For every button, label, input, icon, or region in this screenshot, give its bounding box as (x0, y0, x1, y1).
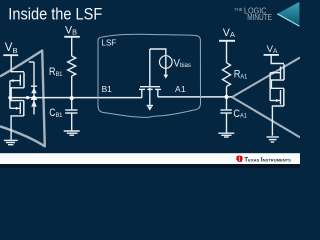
svg-text:THE: THE (234, 7, 242, 12)
svg-text:MINUTE: MINUTE (247, 13, 272, 22)
svg-text:A1: A1 (175, 84, 186, 94)
svg-text:Inside the LSF: Inside the LSF (8, 4, 102, 23)
svg-text:Texas Instruments: Texas Instruments (244, 158, 291, 164)
svg-text:B1: B1 (102, 84, 113, 94)
svg-text:LSF: LSF (102, 38, 117, 47)
